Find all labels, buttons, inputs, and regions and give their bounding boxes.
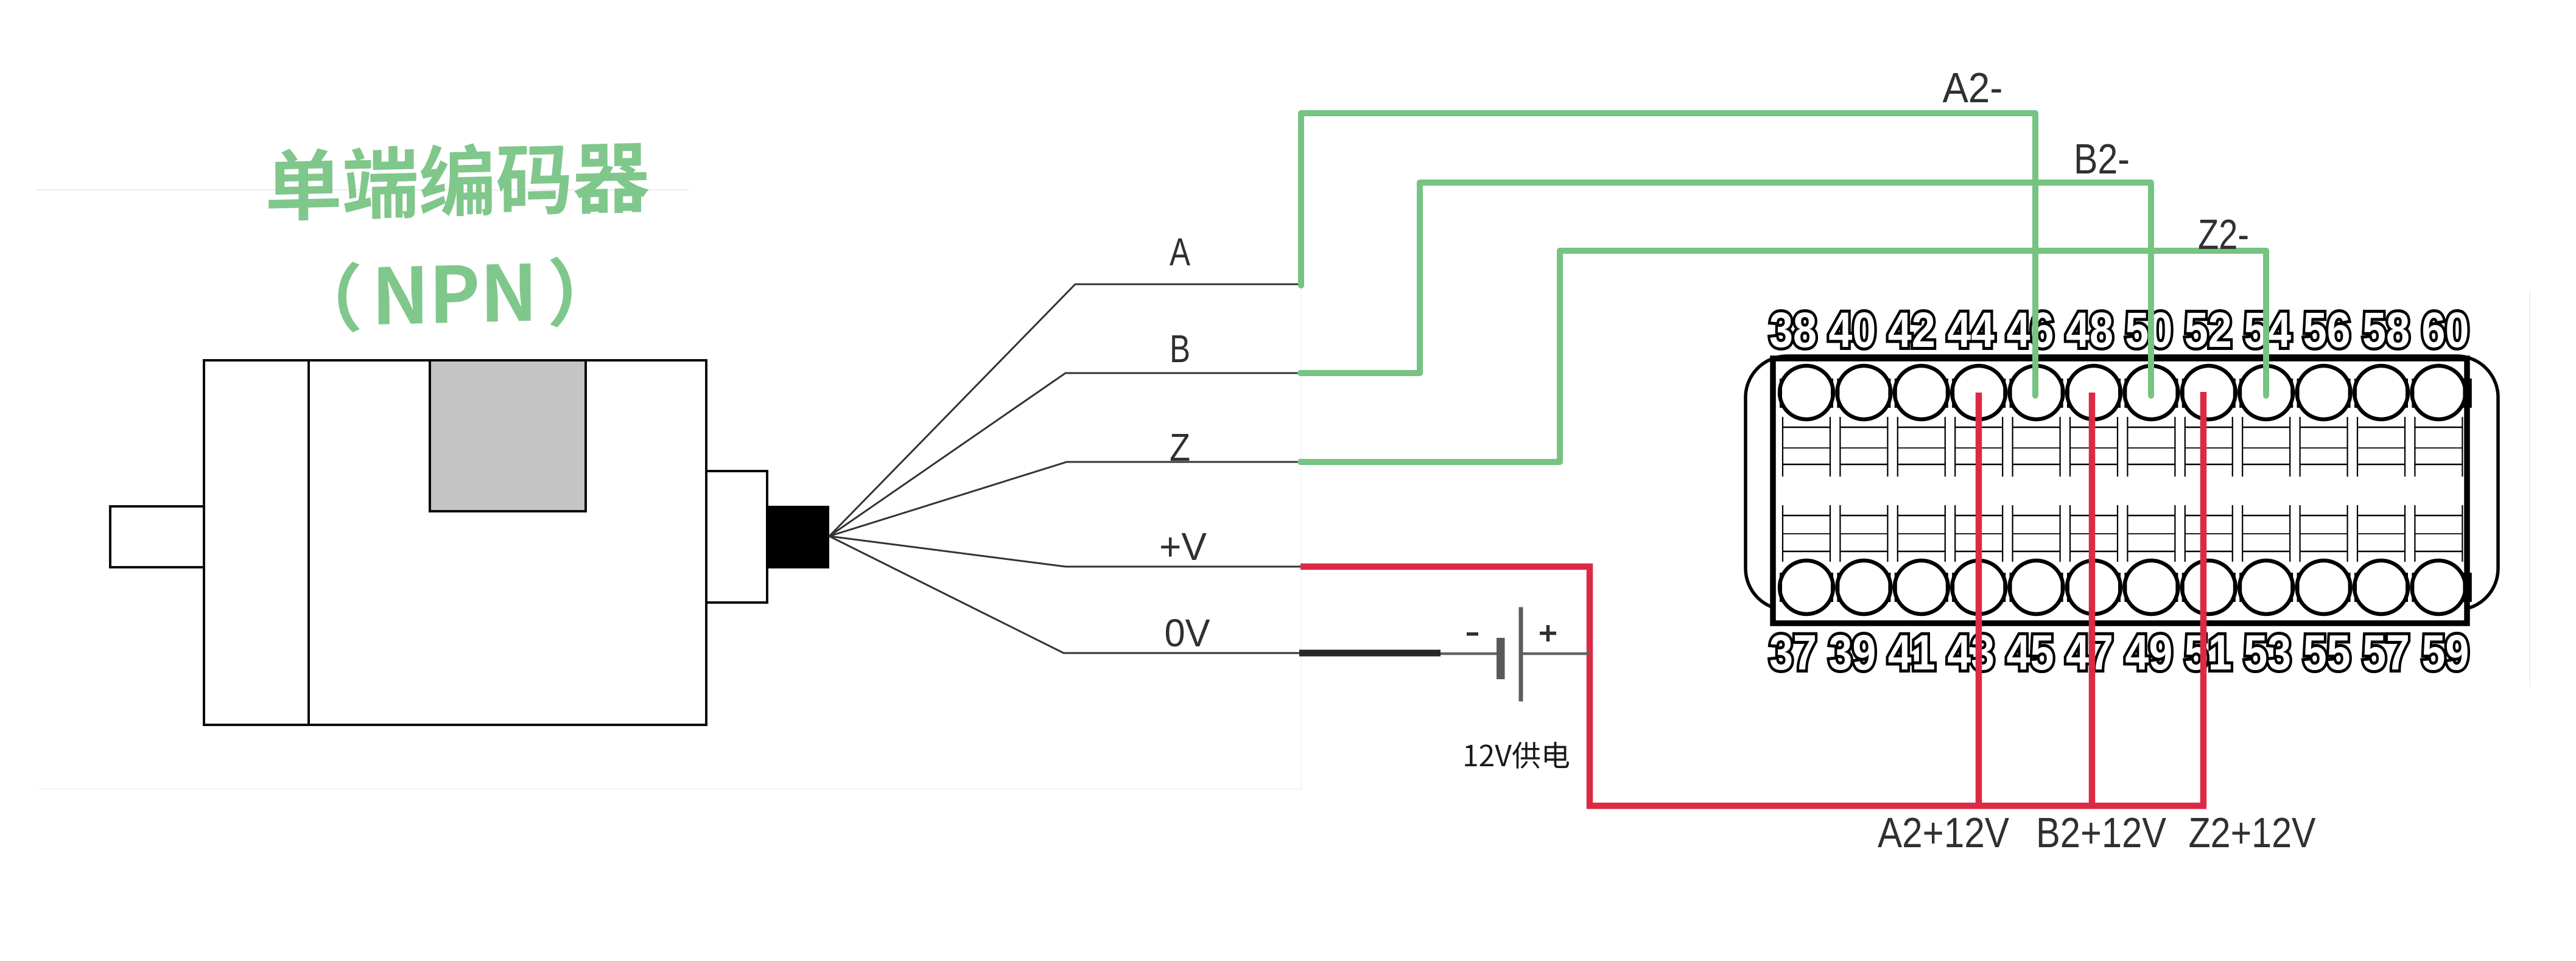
pin numbers bottom row 37-59	[1769, 625, 2469, 680]
wire Z lead from connector	[829, 462, 1300, 536]
battery wire left	[1441, 652, 1497, 655]
battery minus sign	[1467, 632, 1478, 636]
svg-text:43: 43	[1947, 625, 1995, 680]
svg-text:52: 52	[2185, 302, 2232, 358]
wire A lead from connector	[829, 284, 1300, 536]
clamp ladders top row	[1783, 417, 2462, 477]
svg-text:56: 56	[2303, 302, 2351, 358]
pin numbers top row 38-60	[1769, 302, 2469, 358]
svg-text:Z2+12V: Z2+12V	[2189, 809, 2316, 856]
clamp ladders bottom row	[1783, 505, 2462, 562]
svg-text:60: 60	[2421, 302, 2469, 358]
svg-text:+V: +V	[1159, 525, 1207, 568]
svg-text:41: 41	[1888, 625, 1936, 680]
wire Z2+12V red riser	[2200, 392, 2207, 806]
svg-text:37: 37	[1769, 625, 1817, 680]
wire Z2- green	[1300, 251, 2266, 462]
title 单端编码器	[267, 139, 650, 222]
faint image edge left box	[38, 190, 1301, 789]
svg-text:55: 55	[2303, 625, 2351, 680]
battery negative plate	[1497, 638, 1505, 679]
svg-text:57: 57	[2362, 625, 2410, 680]
encoder shaft	[110, 506, 204, 567]
encoder top gray block	[430, 360, 586, 511]
wire B lead from connector	[829, 373, 1300, 536]
pin bridges bottom row	[1775, 573, 2471, 602]
faint image edge right	[2529, 290, 2530, 687]
cable connector black block	[766, 506, 829, 568]
wire B2+12V red riser	[2089, 393, 2096, 809]
pin circles top row (38-60 even)	[1780, 366, 2465, 419]
wire +V lead from connector	[829, 536, 1300, 567]
svg-text:49: 49	[2125, 625, 2172, 680]
svg-text:38: 38	[1769, 302, 1817, 358]
svg-text:B2+12V: B2+12V	[2036, 809, 2166, 856]
svg-text:40: 40	[1828, 302, 1876, 358]
svg-text:42: 42	[1888, 302, 1936, 358]
terminal block outer rounded housing	[1746, 356, 2498, 610]
terminal block main frame	[1773, 358, 2467, 623]
wire 0V lead from connector	[829, 536, 1303, 653]
svg-text:48: 48	[2066, 302, 2113, 358]
pin bridges top row	[1775, 379, 2471, 408]
svg-text:Z: Z	[1170, 425, 1190, 469]
svg-text:0V: 0V	[1165, 611, 1210, 655]
svg-text:59: 59	[2421, 625, 2469, 680]
svg-text:39: 39	[1828, 625, 1876, 680]
battery wire right	[1523, 652, 1590, 655]
svg-text:A: A	[1170, 230, 1190, 274]
wire A2- green	[1301, 113, 2035, 396]
wire A2+12V red riser	[1976, 393, 1982, 809]
faint divider line	[37, 189, 689, 190]
svg-text:A2+12V: A2+12V	[1878, 809, 2009, 856]
svg-text:44: 44	[1947, 302, 1995, 358]
encoder body	[204, 360, 706, 725]
svg-text:Z2-: Z2-	[2198, 211, 2249, 258]
svg-text:51: 51	[2185, 625, 2232, 680]
svg-text:53: 53	[2244, 625, 2291, 680]
svg-text:B2-: B2-	[2074, 135, 2130, 183]
battery plus sign	[1540, 625, 1556, 641]
svg-text:46: 46	[2007, 302, 2054, 358]
encoder body divider	[307, 360, 310, 725]
battery positive plate	[1519, 607, 1523, 702]
title （NPN）	[337, 256, 574, 333]
wire 0V thick segment	[1299, 650, 1441, 657]
svg-text:B: B	[1170, 327, 1190, 371]
svg-text:A2-: A2-	[1943, 64, 2003, 111]
svg-text:45: 45	[2007, 625, 2054, 680]
label 12V供电	[1465, 745, 1476, 766]
wire B2- green	[1300, 183, 2151, 396]
svg-text:58: 58	[2362, 302, 2410, 358]
pin circles bottom row (37-59 odd)	[1780, 561, 2465, 614]
encoder rear connector	[706, 471, 767, 603]
wire +V red	[1300, 567, 2206, 806]
